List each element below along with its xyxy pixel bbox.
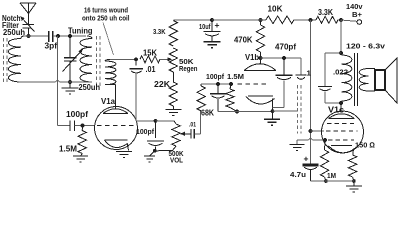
svg-text:1.5M: 1.5M [59, 145, 77, 154]
svg-text:1M: 1M [327, 171, 336, 180]
svg-text:V1b: V1b [245, 53, 259, 62]
svg-text:68K: 68K [201, 109, 214, 118]
svg-text:470K: 470K [234, 36, 253, 45]
svg-text:V1a: V1a [101, 97, 116, 106]
svg-text:onto 250 uh coil: onto 250 uh coil [82, 14, 130, 23]
svg-text:250uh: 250uh [3, 28, 25, 37]
svg-text:1.5M: 1.5M [227, 72, 244, 81]
svg-text:Regen: Regen [179, 64, 198, 73]
svg-text:100pf: 100pf [136, 127, 154, 136]
svg-text:22K: 22K [154, 80, 170, 89]
svg-text:3.3K: 3.3K [318, 8, 333, 17]
svg-text:150 Ω: 150 Ω [355, 141, 375, 150]
svg-text:10uf: 10uf [199, 22, 211, 31]
svg-text:V1c: V1c [328, 106, 345, 115]
svg-text:+: + [304, 154, 309, 164]
svg-text:.01: .01 [146, 65, 156, 74]
svg-text:10K: 10K [268, 5, 283, 14]
svg-text:.1: .1 [304, 69, 311, 78]
svg-text:.022: .022 [333, 68, 348, 77]
svg-text:.01: .01 [189, 122, 196, 129]
svg-text:B+: B+ [352, 10, 363, 19]
svg-text:4.7u: 4.7u [290, 170, 306, 179]
svg-text:250uh: 250uh [79, 83, 101, 92]
svg-text:VOL: VOL [170, 156, 183, 165]
svg-text:+: + [215, 20, 220, 30]
svg-text:120 - 6.3v: 120 - 6.3v [346, 42, 386, 51]
svg-text:100pf: 100pf [66, 110, 88, 119]
svg-text:15K: 15K [143, 49, 157, 58]
svg-text:3.3K: 3.3K [153, 27, 166, 36]
svg-text:100pf: 100pf [206, 72, 224, 81]
svg-text:470pf: 470pf [275, 43, 296, 52]
svg-text:3pf: 3pf [45, 42, 58, 51]
svg-text:Tuning: Tuning [68, 27, 93, 36]
